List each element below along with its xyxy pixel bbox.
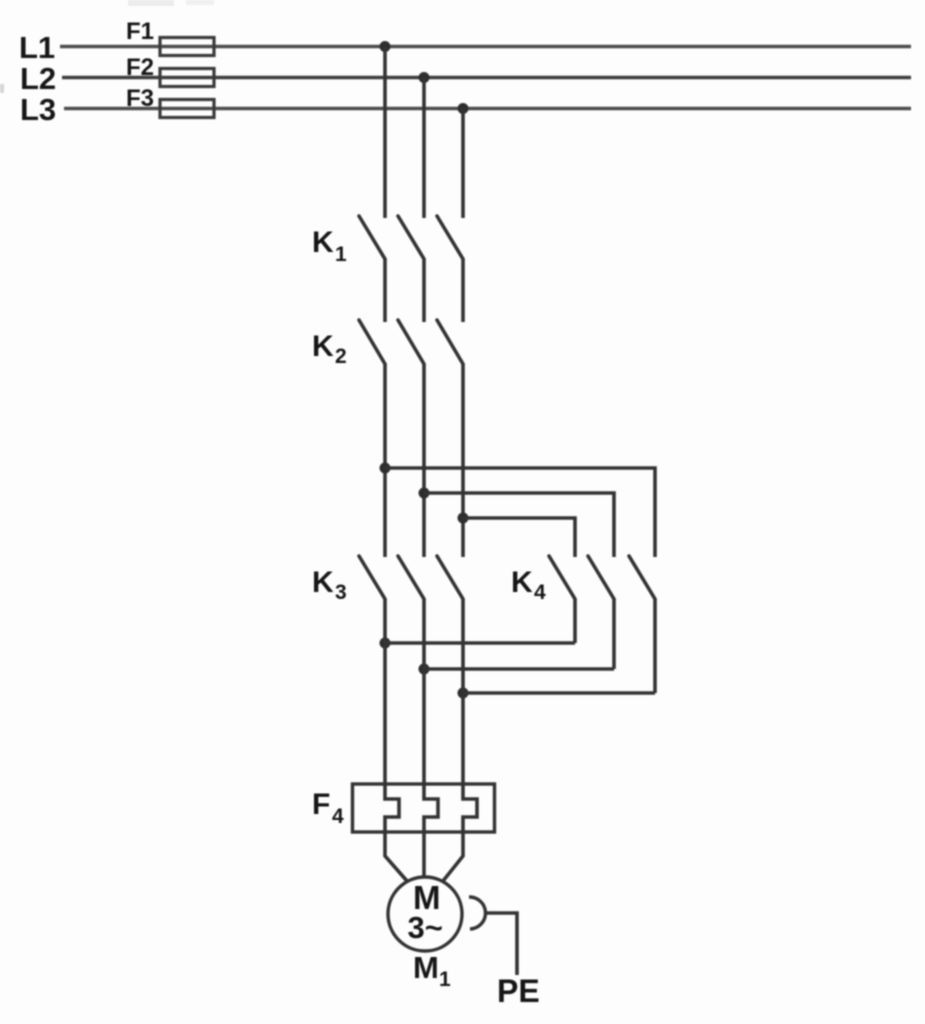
node L1 tap (380, 41, 391, 52)
wire branch phase2 to K4 pole2 top (424, 493, 614, 557)
motor M1 circle (388, 877, 462, 951)
wire drop L3 to K1 pole3 (461, 109, 465, 219)
svg-text:K: K (312, 330, 334, 363)
wire K4 pole3 to main phase3 (463, 691, 655, 695)
svg-text:L3: L3 (20, 92, 56, 127)
svg-text:M: M (413, 950, 439, 985)
svg-text:K: K (312, 566, 334, 599)
contactor K2 pole1 blade (359, 320, 385, 364)
svg-text:2: 2 (335, 345, 347, 368)
node merge phase1 (380, 638, 391, 649)
svg-text:L2: L2 (20, 61, 56, 96)
wire K1 to K2 pole1 (383, 259, 387, 322)
svg-text:F: F (312, 788, 330, 821)
contactor K3 pole2 blade (398, 556, 424, 599)
fuse F1 (160, 38, 214, 56)
node branch A (phase1 tap) (380, 463, 391, 474)
contactor K2 pole2 blade (398, 320, 424, 364)
contactor K4 pole1 blade (549, 556, 575, 599)
wire K2 pole2 down to K3 pole2 (422, 364, 426, 557)
svg-text:K: K (312, 226, 334, 259)
contactor K1 pole1 blade (359, 216, 385, 259)
wire K2 pole3 down to K3 pole3 (461, 364, 465, 557)
svg-text:F3: F3 (126, 85, 154, 112)
wire K1 to K2 pole2 (422, 259, 426, 322)
svg-text:F1: F1 (126, 18, 154, 45)
wire drop L2 to K1 pole2 (422, 78, 426, 219)
node branch C (phase3 tap) (458, 513, 469, 524)
wire K1 to K2 pole3 (461, 259, 465, 322)
svg-text:F2: F2 (126, 54, 154, 81)
svg-text:3~: 3~ (408, 910, 443, 945)
wire branch phase1 to K4 pole3 top (385, 468, 655, 557)
contactor K1 pole3 blade (437, 216, 463, 259)
svg-text:4: 4 (332, 805, 344, 828)
contactor K3 pole1 blade (359, 556, 385, 599)
svg-text:3: 3 (335, 581, 347, 604)
wire K2 pole1 down to K3 pole1 (383, 364, 387, 557)
overload relay F4 box (353, 784, 495, 832)
wire K4 pole2 bottom (612, 599, 616, 669)
wire L1 rail (60, 45, 911, 49)
contactor K4 pole2 blade (588, 556, 614, 599)
wire K4 pole2 to main phase2 (424, 667, 614, 671)
svg-text:L1: L1 (19, 30, 55, 65)
wire L3 rail (64, 107, 911, 111)
contactor K1 pole2 blade (398, 216, 424, 259)
top smudge artifact (128, 0, 174, 6)
svg-text:1: 1 (439, 968, 451, 991)
svg-text:1: 1 (335, 243, 347, 266)
wire K3 pole1 through F4 heater 1 to motor (385, 599, 407, 881)
wire PE (484, 913, 517, 975)
contactor K2 pole3 blade (437, 320, 463, 364)
svg-text:4: 4 (534, 581, 546, 604)
svg-text:PE: PE (497, 973, 540, 1009)
wire K4 pole3 bottom (653, 599, 657, 693)
node branch B (phase2 tap) (419, 488, 430, 499)
contactor K4 pole3 blade (629, 556, 655, 599)
wire K3 pole3 through F4 heater 3 to motor (443, 599, 477, 881)
node L2 tap (419, 72, 430, 83)
wire L2 rail (62, 76, 911, 79)
svg-text:K: K (511, 566, 533, 599)
wire drop L1 to K1 pole1 (383, 47, 387, 219)
node merge phase2 (419, 664, 430, 675)
fuse F2 (160, 69, 214, 87)
wire branch phase3 to K4 pole1 top (463, 518, 575, 557)
wire K4 pole1 bottom (573, 599, 577, 643)
fuse F3 (160, 100, 214, 118)
PE terminal arc (469, 897, 485, 929)
node merge phase3 (458, 688, 469, 699)
edge artifact (0, 84, 4, 93)
contactor K3 pole3 blade (437, 556, 463, 599)
wire K4 pole1 to main phase1 (385, 641, 575, 645)
node L3 tap (458, 103, 469, 114)
wire K3 pole2 through F4 heater 2 to motor (424, 599, 438, 877)
